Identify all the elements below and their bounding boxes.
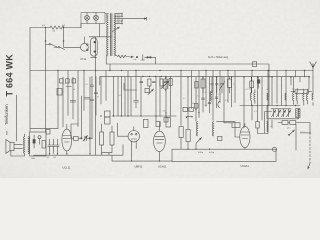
svg-text:50: 50 [205, 92, 207, 94]
svg-text:Telefunken: Telefunken [4, 104, 9, 125]
wire UCH anode [258, 106, 272, 134]
resistor R-r3 [169, 79, 172, 86]
resistor R-a2 [110, 132, 114, 145]
wire audio bus [34, 145, 124, 156]
svg-text:60: 60 [267, 89, 269, 91]
coil L-r6 [312, 77, 313, 106]
resistor R-ws2 [290, 121, 296, 125]
svg-text:2: 2 [233, 84, 234, 86]
wire corner to pot [71, 96, 81, 138]
capacitor C-o3 [56, 139, 59, 154]
capacitor C-stack [91, 76, 98, 138]
wire bus AVC [100, 75, 310, 77]
svg-text:0,2: 0,2 [246, 89, 249, 91]
switch S-osc arrow [148, 89, 154, 95]
transformer T1 voltage taps [115, 14, 121, 24]
capacitor C-rf1 [211, 77, 214, 93]
resistor R-b1 [60, 79, 64, 83]
wire filter top [84, 14, 111, 71]
capacitor C-af1 [70, 101, 76, 103]
svg-text:0,05μ: 0,05μ [198, 152, 203, 154]
svg-text:0,1: 0,1 [54, 157, 57, 159]
capacitor C-tune3 [282, 110, 286, 117]
wire switch to rectifier [64, 41, 81, 47]
svg-text:0,05μ: 0,05μ [209, 152, 214, 154]
resistor R-if2 [156, 122, 160, 127]
wire mains feed line [123, 17, 147, 20]
grid arc [218, 101, 220, 108]
capacitor C-r2 [152, 82, 155, 83]
svg-text:50: 50 [73, 89, 75, 91]
antenna A1 [312, 64, 314, 78]
wire speaker leads [11, 95, 25, 156]
resistor R-rf1 [201, 79, 205, 88]
resistor R-r1 [148, 79, 151, 86]
wire mid verticals right cluster [181, 71, 235, 130]
resistor R-rf2 [228, 79, 232, 88]
resistor R-b2 [66, 79, 70, 83]
wire mid verticals center cluster [114, 71, 171, 122]
resistor R-b3 [72, 79, 76, 83]
svg-text:0,1: 0,1 [119, 95, 122, 97]
wire ws vertical [295, 124, 297, 150]
wire main bus B [30, 70, 313, 72]
capacitor C-r1 [140, 82, 143, 83]
resistor R-deta [194, 104, 198, 109]
switch link dashed [309, 133, 311, 163]
svg-text:0,2: 0,2 [183, 98, 186, 100]
wire mains mid drop [45, 41, 47, 132]
resistor R heater + wire [116, 55, 130, 58]
transformer T1 selector arrow [113, 27, 120, 32]
resistor R-g1 [74, 136, 79, 140]
wire audio bus2 [112, 155, 172, 161]
wire mains left drop [30, 28, 58, 133]
svg-text:2: 2 [262, 88, 263, 90]
resistor R-if5 [179, 127, 183, 138]
lamp pilot [38, 136, 41, 139]
capacitor C-af2 [84, 98, 90, 100]
resistor R-if1 [144, 120, 149, 128]
coil L-ant [163, 76, 168, 91]
wire corner rf [124, 83, 137, 90]
junction dots [45, 40, 47, 42]
svg-text:0,05: 0,05 [163, 111, 167, 113]
capacitor C-tune1 [272, 110, 276, 117]
resistor R-af2 [105, 111, 110, 117]
capacitor C-block [257, 80, 260, 83]
tube UCH11 [240, 126, 250, 147]
svg-text:UBF11: UBF11 [135, 165, 143, 169]
capacitor C-m1 [202, 97, 218, 104]
resistor R-det2 [189, 108, 193, 112]
coil L-if2 [212, 122, 213, 136]
capacitor C-var trimmer [219, 77, 225, 93]
resistor R-screen [57, 89, 62, 96]
resistor R-osc [145, 89, 149, 93]
capacitor C-tune2 [277, 110, 281, 117]
transformer T1 secondary winding [114, 14, 115, 56]
chassis box [30, 132, 46, 156]
capacitor C-mid1 [134, 101, 139, 109]
coil L-r1 [250, 93, 255, 101]
wire right lower [224, 122, 232, 124]
resistor R-r2 [160, 79, 163, 86]
node mains tap 2 [63, 28, 65, 42]
svg-text:100: 100 [204, 105, 207, 107]
coil L-osc [267, 121, 268, 132]
wire bus IF [112, 115, 176, 117]
transformer T1 primary winding [107, 14, 108, 56]
resistor R-osc2 [256, 122, 259, 129]
loudspeaker LS [6, 140, 14, 154]
coil L-r2 [267, 93, 268, 100]
tube UY11 rectifier [81, 43, 89, 51]
wire right verticals [244, 71, 309, 129]
wire transformer bottom drop [100, 56, 110, 85]
svg-text:UY11: UY11 [80, 57, 87, 61]
wire tune bottom rail [267, 106, 299, 119]
lamp on loop [272, 147, 276, 151]
resistor R-rf0 [195, 82, 198, 89]
svg-text:0,1: 0,1 [197, 96, 200, 98]
switch S-wave [290, 130, 295, 135]
tube UCL11 [62, 129, 72, 151]
resistor R-af3 [105, 117, 110, 124]
resistor R-det1 [183, 108, 187, 112]
svg-text:5000: 5000 [31, 158, 35, 160]
resistor R-mains dropper [50, 26, 64, 29]
coil L-r4 [293, 93, 298, 101]
wire output loop [172, 149, 276, 161]
resistor R-tr1 [296, 109, 300, 118]
svg-text:50: 50 [192, 103, 194, 105]
svg-text:Kurz u. Mittel Lang: Kurz u. Mittel Lang [208, 56, 229, 59]
switch S1 mains [46, 44, 65, 50]
wire box leads [181, 138, 196, 150]
svg-text:110: 110 [117, 22, 120, 24]
wire bus tuning [240, 105, 300, 107]
svg-text:UCH11: UCH11 [158, 165, 167, 169]
wire osc coil cluster [268, 106, 272, 134]
svg-text:0,1: 0,1 [211, 98, 214, 100]
resistor R-rf3 [250, 81, 254, 88]
lamp La1 [85, 15, 90, 20]
svg-text:2x6: 2x6 [292, 89, 295, 91]
capacitor C-tune4 [287, 110, 291, 117]
wire tune top rail [271, 108, 291, 110]
fuse box [252, 62, 256, 67]
svg-text:0,1: 0,1 [86, 84, 89, 86]
capacitor C-det [164, 118, 168, 123]
svg-text:0,5: 0,5 [218, 94, 221, 96]
capacitor C-filter can [91, 38, 98, 56]
resistor R-if4 [218, 137, 222, 141]
transformer T-out secondary [28, 137, 29, 154]
resistor R-ws1 [282, 121, 288, 125]
svg-text:T 664 WK: T 664 WK [5, 54, 15, 97]
svg-text:0,1: 0,1 [63, 84, 66, 86]
wire if to mixer [217, 122, 240, 137]
lamp La2 [94, 15, 99, 20]
svg-text:UCH11: UCH11 [241, 164, 250, 168]
tube UBF11 [154, 131, 166, 151]
wire jog [66, 86, 72, 88]
svg-text:0,1: 0,1 [47, 157, 50, 159]
coil L-ifa [210, 91, 211, 101]
capacitor C-o2 [52, 139, 55, 154]
resistor R-a1 [100, 132, 104, 145]
svg-text:300: 300 [249, 89, 252, 91]
potentiometer P1 [83, 136, 88, 142]
resistor R-ch [42, 141, 46, 149]
tube UM11 indicator [128, 131, 139, 142]
svg-text:UCL11: UCL11 [63, 165, 71, 169]
wire band box top [106, 64, 269, 106]
resistor R-if3 [166, 118, 171, 128]
wire mains top rail [30, 27, 81, 29]
wire lamp box [81, 13, 105, 28]
capacitor C-o1 [48, 139, 51, 154]
resistor R-corner [232, 123, 240, 128]
svg-text:Wellensch.: Wellensch. [300, 132, 312, 135]
capacitor C-rf2 [215, 77, 218, 93]
coil L-r3 [285, 93, 286, 100]
svg-text:50: 50 [270, 126, 272, 128]
transformer T1 core [110, 14, 112, 56]
resistor R-ant [295, 90, 309, 94]
svg-text:0,1: 0,1 [254, 111, 257, 113]
wire mid verticals left cluster [58, 71, 106, 156]
resistor R-if6 [186, 130, 190, 142]
coil L-if1 [196, 122, 197, 136]
svg-text:50: 50 [97, 97, 99, 99]
node mains tap 1 [45, 28, 47, 42]
coil L-r5 [303, 93, 308, 101]
transformer T-out primary [23, 137, 24, 154]
wire det jog [186, 116, 192, 118]
svg-text:0,1: 0,1 [225, 100, 228, 102]
capacitor C-r3 [164, 82, 167, 83]
